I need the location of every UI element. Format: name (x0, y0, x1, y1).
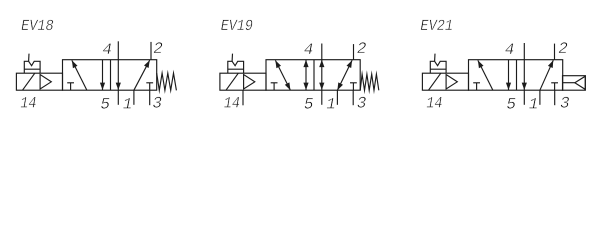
blocked port 5 symbol EV18 (70, 83, 72, 90)
solenoid diagonal EV18 (23, 73, 35, 90)
svg-text:4: 4 (102, 41, 112, 59)
svg-text:3: 3 (152, 94, 162, 112)
svg-text:EV21: EV21 (420, 17, 453, 35)
flow path 1-2 arrow EV18 (134, 60, 150, 90)
svg-text:5: 5 (304, 95, 314, 113)
electrical lead EV18 (28, 54, 30, 62)
flow path 2-3 arrow EV21 (508, 60, 510, 90)
svg-text:EV19: EV19 (221, 17, 253, 35)
svg-text:2: 2 (558, 40, 568, 58)
flow path 2-3 arrow EV18 (102, 60, 104, 90)
solenoid pilot actuator box EV18 (16, 73, 62, 90)
port 4 line EV18 (117, 41, 119, 59)
svg-text:1: 1 (123, 95, 133, 113)
port 3 line EV19 (352, 90, 354, 105)
svg-text:1: 1 (326, 95, 336, 113)
flow path 4-5 arrow EV19 (321, 60, 323, 90)
svg-text:5: 5 (100, 95, 110, 113)
svg-text:14: 14 (20, 95, 36, 113)
pilot return box EV21 (563, 76, 586, 91)
pilot return apex line EV21 (563, 82, 575, 84)
port 2 line EV19 (353, 44, 355, 60)
solenoid coil box EV18 (24, 61, 40, 73)
port 1 line EV21 (539, 90, 541, 105)
svg-text:4: 4 (505, 41, 515, 59)
port 1 line EV18 (133, 90, 135, 105)
svg-text:2: 2 (153, 40, 163, 58)
port 4 line EV21 (523, 43, 525, 60)
svg-text:5: 5 (506, 95, 516, 113)
flow path 1-4 arrow EV21 (478, 60, 493, 90)
pilot triangle EV19 (244, 75, 255, 90)
blocked port 5 symbol EV19 (273, 83, 275, 90)
solenoid pilot actuator box EV21 (422, 73, 468, 90)
position divider EV21 (516, 60, 518, 90)
pilot triangle EV21 (446, 75, 457, 90)
solenoid pilot actuator box EV19 (220, 73, 266, 90)
svg-text:4: 4 (304, 41, 314, 59)
blocked port 3 symbol EV18 (149, 83, 151, 90)
coil box mid line EV18 (24, 68, 40, 70)
solenoid coil box EV19 (228, 61, 244, 73)
port 2 line EV18 (150, 42, 152, 60)
port 5 line EV19 (321, 90, 323, 105)
position divider EV18 (110, 60, 112, 90)
position divider EV19 (313, 60, 315, 90)
flow path 4-5 arrow EV21 (523, 60, 525, 90)
return spring EV18 (157, 73, 177, 90)
pilot return triangle EV21 (575, 76, 586, 89)
blocked port 3 symbol EV21 (554, 83, 556, 90)
solenoid diagonal EV19 (226, 73, 238, 90)
svg-text:14: 14 (426, 95, 442, 113)
flow path 2-3 arrow EV19 (305, 60, 307, 90)
valve body EV19 (266, 60, 360, 90)
solenoid coil box EV21 (430, 61, 446, 73)
coil box mid line EV21 (430, 68, 446, 70)
flow path 1-2 arrow EV21 (540, 60, 553, 90)
port 2 line EV21 (554, 44, 556, 60)
port 5 line EV21 (523, 90, 525, 105)
svg-text:3: 3 (560, 94, 570, 112)
svg-text:EV18: EV18 (21, 17, 54, 35)
svg-text:3: 3 (357, 94, 367, 112)
flow path 4-5 arrow EV18 (117, 60, 119, 90)
port 5 line EV18 (117, 90, 119, 105)
port 3 line EV21 (554, 90, 556, 105)
electrical lead EV21 (434, 54, 436, 62)
blocked port 5 symbol EV21 (476, 83, 478, 90)
blocked port 3 symbol EV19 (352, 83, 354, 90)
svg-text:1: 1 (529, 95, 539, 113)
valve body EV21 (469, 60, 563, 90)
flow path 1-4 arrow EV18 (72, 60, 87, 90)
flow path 1-2 arrow EV19 (337, 60, 352, 90)
port 4 line EV19 (321, 44, 323, 60)
solenoid diagonal EV21 (429, 73, 441, 90)
valve body EV18 (63, 60, 157, 90)
coil box mid line EV19 (228, 68, 244, 70)
electrical lead EV19 (231, 54, 233, 62)
flow path 1-4 arrow EV19 (275, 60, 290, 90)
pilot triangle EV18 (40, 75, 51, 90)
port 3 line EV18 (149, 90, 151, 105)
pilot port 14 line EV19 (242, 91, 244, 106)
return spring EV19 (360, 74, 379, 90)
svg-text:2: 2 (357, 40, 367, 58)
svg-text:14: 14 (224, 95, 240, 113)
port 1 line EV19 (336, 90, 338, 105)
